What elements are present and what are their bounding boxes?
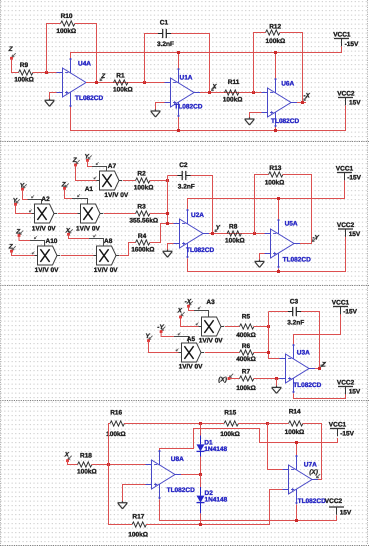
resistor R7 100kΩ [236,369,256,392]
wire Z to A7 y input [76,165,97,181]
wire VCC1 rail section1 [71,46,342,78]
wire U2A plus input to ground [168,244,174,252]
node Z input flag (A10 lower) [8,243,16,252]
svg-text:C1: C1 [160,19,169,26]
node Z input flag (A7 lower) [72,157,80,166]
node junction R15/R14/U7A minus [266,422,269,425]
power VCC1 -15V section4 [329,421,355,437]
node junction U7A V+ pin [295,519,298,522]
wire Z to A1 x input [65,189,88,205]
svg-text:U8A: U8A [171,456,184,463]
resistor R12 100kΩ [266,23,286,45]
svg-text:A3: A3 [206,299,215,306]
node junction R7/ground/plus [275,377,278,380]
node junction U5A V- pin [277,197,280,200]
resistor R8 100kΩ [225,223,245,244]
svg-text:R11: R11 [228,79,240,86]
svg-text:100kΩ: 100kΩ [77,469,97,476]
svg-text:R17: R17 [132,513,144,520]
svg-text:R10: R10 [61,13,73,20]
svg-text:U5A: U5A [285,221,298,228]
svg-text:VCC2: VCC2 [337,379,355,386]
wire R15 row [201,423,268,425]
wire R4 to summing node [150,224,168,243]
wire X to A8 x input [69,235,104,247]
wire R6 to summing node [254,352,269,354]
node junction R2/C2 [166,179,169,182]
svg-text:R15: R15 [224,409,236,416]
svg-text:VCC2: VCC2 [337,90,355,97]
svg-text:TL082CD: TL082CD [271,118,299,125]
wire U4A plus input to ground [50,93,57,101]
svg-text:R14: R14 [289,409,301,416]
svg-text:VCC1: VCC1 [336,165,354,172]
node X input flag (A3 lower) [177,308,185,319]
node junction U6A V+ pin [274,129,277,132]
svg-text:Y: Y [145,333,150,340]
wire VCC2 rail section4 [160,500,337,521]
node -X input flag (A3 upper) [185,298,193,307]
node junction U4A output [95,81,98,84]
op-amp U8A TL082CD [146,450,196,499]
svg-text:X: X [211,83,217,90]
resistor R14 100kΩ [285,409,305,436]
wire U1A plus input to ground [156,103,165,112]
svg-text:1N4148: 1N4148 [205,496,228,503]
svg-text:15V: 15V [349,389,361,396]
svg-text:-15V: -15V [340,431,354,438]
svg-text:R6: R6 [242,343,251,350]
svg-text:A7: A7 [108,163,117,170]
wire U6A output [297,102,306,104]
svg-text:100kΩ: 100kΩ [225,238,245,245]
power VCC2 15V section1 [337,90,361,106]
wire U3A V+ pin to VCC2 rail [294,391,346,398]
node junction U6A V- pin [274,51,277,54]
node Y input flag (A2 lower) [13,198,20,206]
wire R3 to summing node [150,213,168,215]
wire VCC2 rail section2 [188,234,346,271]
svg-text:R12: R12 [269,23,281,30]
ground below U8A [118,501,128,509]
node junction D2 bottom [199,523,202,526]
multiplier A2 1V/V 0V [32,196,58,233]
wire U8A output to diode node [181,474,201,476]
ground below U2A [163,250,173,258]
wire R16 loop [109,424,201,465]
svg-text:A8: A8 [104,238,113,245]
svg-text:355.56kΩ: 355.56kΩ [129,218,158,225]
svg-text:U4A: U4A [78,61,91,68]
ground below U3A plus input [272,386,282,394]
node junction U7A V- pin [295,441,298,444]
wire Z to A10 y input [12,252,35,256]
svg-text:R7: R7 [242,369,251,376]
node X input flag [64,451,72,462]
svg-text:A1: A1 [85,186,94,193]
resistor R17 100kΩ [128,513,148,538]
node -X output flag [303,92,310,100]
svg-text:100kΩ: 100kΩ [128,532,148,539]
resistor R1 100kΩ [113,72,133,93]
svg-text:VCC1: VCC1 [329,421,347,428]
svg-text:R13: R13 [269,165,281,172]
svg-text:X: X [177,308,183,315]
node Z input flag (A1 upper) [61,182,69,190]
multiplier A8 1V/V 0V [94,238,120,274]
svg-text:100kΩ: 100kΩ [236,385,256,392]
node junction summing node U2A [166,222,169,225]
svg-text:-X: -X [185,298,192,305]
svg-text:100kΩ: 100kΩ [266,38,286,45]
svg-text:1V/V 0V: 1V/V 0V [32,226,57,233]
multiplier A5 1V/V 0V [179,336,205,371]
svg-text:1V/V 0V: 1V/V 0V [76,226,101,233]
multiplier A3 1V/V 0V [199,299,225,345]
node Y flag at U2A output [215,224,221,231]
wire ground stem U3A [276,379,278,388]
svg-text:R8: R8 [229,223,238,230]
node junction C1 left [143,81,146,84]
capacitor C1 3.2nF [156,19,174,48]
ground below U6A [245,117,255,125]
wire VCC1 rail section2 [188,180,345,219]
svg-text:(X): (X) [218,377,227,384]
svg-text:TL082CD: TL082CD [75,95,103,102]
wire R12 feedback loop [254,33,303,103]
svg-text:-Y: -Y [312,234,319,241]
power VCC1 -15V section3 [332,299,358,315]
node (X) input flag at R7 [218,374,233,384]
resistor R4 1600kΩ [131,233,154,254]
svg-text:A2: A2 [41,196,50,203]
wire R18 to U8A minus input [92,464,146,466]
svg-text:Y: Y [216,224,221,231]
svg-text:100kΩ: 100kΩ [14,77,34,84]
svg-text:VCC1: VCC1 [332,299,350,306]
resistor R18 100kΩ [77,452,97,475]
wire X to A3 y input [181,317,199,327]
svg-text:A5: A5 [187,336,196,343]
wire -Y to A5 x input [161,332,188,343]
svg-text:R16: R16 [110,409,122,416]
multiplier A10 1V/V 0V [35,238,61,274]
node Z input flag [8,46,16,60]
node junction R3/C2 vertical [166,212,169,215]
node -Z flag at U4A output [100,73,106,81]
resistor R5 400kΩ [236,314,256,340]
svg-text:100kΩ: 100kΩ [113,87,133,94]
svg-text:(X): (X) [309,469,318,476]
wire R5 to summing node [254,326,269,328]
node (X) output flag [309,469,320,478]
wire -X to A3 x input [189,307,209,318]
node junction C1 right [208,91,211,94]
ground below U5A [255,260,265,268]
svg-text:400kΩ: 400kΩ [236,332,256,339]
wire R17 row to U7A plus [109,465,283,525]
wire Y to A5 y input [149,341,179,353]
svg-text:3.2nF: 3.2nF [178,183,195,190]
node Z input flag (A10 upper) [15,229,23,237]
svg-text:1V/V 0V: 1V/V 0V [104,192,129,199]
node Y input flag (A5 lower) [145,333,152,342]
wire R13 feedback loop [255,175,312,244]
wire A3 output to R5 [225,326,240,328]
svg-text:15V: 15V [340,509,352,516]
wire Z to R9 [12,59,19,73]
wire A10 output to A8 y input [61,255,94,257]
wire C1 feedback loop [145,34,210,93]
node junction R12 left [252,91,255,94]
node junction R18/R16/R17 [107,463,110,466]
multiplier A1 1V/V 0V [76,186,103,233]
wire Y to A2 x input [23,190,42,205]
wire Z to A10 x input [19,236,45,247]
node X input flag (A8 upper) [65,228,73,236]
wire U4A output row to U1A [86,82,165,84]
wire Y to A2 y input [16,205,32,214]
svg-text:100kΩ: 100kΩ [220,431,240,438]
op-amp U1A TL082CD [165,68,203,117]
svg-text:VCC2: VCC2 [325,498,343,505]
svg-text:U1A: U1A [180,74,193,81]
svg-text:R4: R4 [138,233,147,240]
svg-text:1V/V 0V: 1V/V 0V [35,267,60,274]
multiplier A7 1V/V 0V [97,163,129,199]
svg-text:100kΩ: 100kΩ [265,179,285,186]
node junction D1 top [199,422,202,425]
wire U5A plus input to ground [260,254,265,262]
svg-text:U6A: U6A [281,81,294,88]
power VCC2 15V section4 [325,498,352,516]
diode D1 1N4148 [197,424,228,475]
op-amp U4A TL082CD [57,58,104,107]
svg-text:-X: -X [303,92,310,99]
node Y input flag (A2 upper) [20,182,27,190]
node junction R13 left [253,232,256,235]
wire U7A minus input [268,424,283,470]
wire X to R18 [68,461,78,465]
wire A5 output to R6 [205,352,240,354]
resistor R2 100kΩ [134,170,154,191]
svg-text:3.2nF: 3.2nF [287,320,304,327]
node junction R6/C3 vertical [267,351,270,354]
wire U1A output row to U6A [200,92,262,94]
ground below U1A [151,109,161,117]
node Z output flag [321,361,327,368]
svg-text:VCC2: VCC2 [337,222,355,229]
wire U2A output row to U5A [209,233,265,235]
svg-text:R9: R9 [20,62,29,69]
svg-text:-15V: -15V [345,41,359,48]
capacitor C2 3.2nF [176,162,195,190]
node Y input flag (A7 upper) [85,154,92,162]
wire A7 output to R2 [123,180,136,182]
node junction R9/R10 [45,71,48,74]
svg-text:TL082CD: TL082CD [298,498,326,505]
svg-text:-15V: -15V [343,309,357,316]
svg-text:1V/V 0V: 1V/V 0V [199,338,224,345]
resistor R6 400kΩ [236,343,256,363]
svg-text:400kΩ: 400kΩ [236,356,256,363]
wire VCC1 rail section4 [160,429,338,456]
wire A2 output to A1 y input [58,213,78,215]
svg-text:TL082CD: TL082CD [283,257,311,264]
node junction R5/C3 [267,325,270,328]
op-amp U5A TL082CD [265,219,312,268]
svg-text:TL082CD: TL082CD [174,104,202,111]
svg-text:R1: R1 [116,72,125,79]
section separator lines [0,142,369,546]
op-amp U7A TL082CD [283,455,327,505]
resistor R11 100kΩ [223,79,243,103]
resistor R15 100kΩ [220,409,240,437]
node junction C3 right / output [318,367,321,370]
svg-text:3.2nF: 3.2nF [157,41,174,48]
power VCC2 15V section3 [337,379,361,395]
svg-text:X: X [64,451,70,458]
svg-text:100kΩ: 100kΩ [56,28,76,35]
wire R2 to summing node [150,180,168,182]
svg-text:U7A: U7A [304,462,317,469]
node junction R12 right [301,101,304,104]
svg-text:R2: R2 [137,170,146,177]
node junction U8A output [199,473,202,476]
resistor R3 355.56kΩ [129,203,158,224]
svg-text:TL082CD: TL082CD [293,382,321,389]
svg-text:1N4148: 1N4148 [204,446,227,453]
svg-text:R3: R3 [137,203,146,210]
svg-text:R18: R18 [80,452,92,459]
svg-text:-Y: -Y [157,324,164,331]
node junction C2 right [211,232,214,235]
resistor R10 100kΩ [56,13,76,35]
wire U8A plus input to ground [123,485,146,503]
wire C3 feedback loop [269,312,320,369]
ground below U4A [45,99,55,107]
svg-text:-15V: -15V [347,175,361,182]
svg-text:C2: C2 [179,162,188,169]
svg-text:100kΩ: 100kΩ [134,185,154,192]
resistor R16 100kΩ [106,409,126,437]
wire R10 feedback loop [47,24,97,83]
wire R7 to U3A plus node [254,378,280,380]
wire A1 output to R3 [104,213,136,215]
wire U3A minus row [269,358,280,360]
svg-text:U2A: U2A [191,212,204,219]
wire VCC2 rail section1 [71,106,346,131]
svg-text:1V/V 0V: 1V/V 0V [94,267,119,274]
node junction U5A V+ pin [277,270,280,273]
power VCC1 -15V section1 [333,31,359,47]
wire R14 loop to U7A output [268,424,322,480]
op-amp U3A TL082CD [280,344,322,393]
svg-text:15V: 15V [349,100,361,107]
svg-text:1600kΩ: 1600kΩ [131,247,154,254]
wire U3A output [315,368,320,370]
node -Y output flag [312,234,319,241]
svg-text:TL082CD: TL082CD [186,247,214,254]
wire Y to A7 x input [88,161,107,172]
svg-text:VCC1: VCC1 [333,31,351,38]
wire U6A plus input to ground [250,113,262,120]
svg-text:1V/V 0V: 1V/V 0V [179,364,204,371]
svg-text:100kΩ: 100kΩ [223,96,243,103]
power VCC2 15V section2 [337,222,361,238]
svg-text:100kΩ: 100kΩ [106,431,126,438]
svg-text:15V: 15V [349,231,361,238]
diode D2 1N4148 [197,475,228,525]
node junction U1A V- pin [177,51,180,54]
node -Y input flag (A5 upper) [157,324,165,333]
svg-text:C3: C3 [290,299,299,306]
svg-text:100kΩ: 100kΩ [285,429,305,436]
resistor R13 100kΩ [265,165,285,186]
wire C2 feedback loop [168,176,213,234]
wire U3A V- pin to VCC1 [294,312,341,345]
svg-text:U3A: U3A [297,349,310,356]
svg-text:TL082CD: TL082CD [167,487,195,494]
op-amp U2A TL082CD [174,209,215,258]
op-amp U6A TL082CD [262,78,300,127]
power VCC1 -15V section2 [336,165,362,181]
resistor R9 100kΩ [14,62,34,84]
capacitor C3 3.2nF [286,299,304,327]
wire (X) to R7 [229,378,240,380]
wire A8 output to R4 [120,243,136,256]
wire R9 to U4A inverting input [33,72,57,74]
node junction U1A V+ pin [177,129,180,132]
svg-text:R5: R5 [242,314,251,321]
node X flag [211,83,217,90]
svg-text:A10: A10 [46,238,58,245]
